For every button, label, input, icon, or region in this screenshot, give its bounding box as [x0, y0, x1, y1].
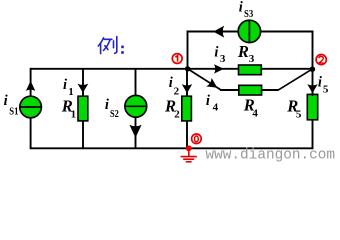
arrow: i2 current direction (down)	[182, 84, 192, 93]
svg-text:S1: S1	[9, 106, 18, 117]
current source iS3 (circle with bar, horizontal orientation)	[238, 20, 260, 42]
svg-text:S3: S3	[244, 9, 253, 20]
wire: left vertical branch of iS1 (x=30.6)	[30, 68, 32, 148]
label R3	[237, 42, 255, 65]
svg-text:S2: S2	[110, 109, 119, 120]
svg-text:5: 5	[323, 84, 329, 96]
wire: R2 branch vertical (x=187)	[186, 68, 188, 148]
wire: top bus node1-area from left corner to node 2 (y=68.8)	[31, 68, 313, 70]
current source iS1 (circle with bar)	[20, 96, 42, 118]
wire: bottom rail (y=148.3)	[30, 147, 314, 149]
svg-text:i: i	[239, 0, 243, 15]
ground (red earth symbol below node 0)	[181, 148, 197, 162]
svg-text:i: i	[105, 97, 109, 113]
node 2 label (red circled 2)	[316, 55, 326, 65]
label: blue colon after 例	[121, 46, 124, 54]
svg-text:4: 4	[252, 108, 258, 120]
label R1	[61, 96, 76, 120]
svg-text:i: i	[63, 77, 67, 93]
wire: vertical from node 1 up to top loop (x=187.5)	[187, 31, 189, 69]
label i2	[169, 75, 180, 97]
svg-text:i: i	[214, 45, 218, 61]
wire: horizontal out of R4 right end (y=90)	[261, 89, 279, 91]
node 0 label (red circled 0)	[192, 134, 202, 144]
svg-text:i: i	[169, 75, 173, 91]
label i3	[214, 45, 226, 66]
arrow: i1 current direction (down)	[78, 84, 89, 93]
wire: R1 branch vertical (x=83)	[82, 68, 84, 148]
arrow: iS2 current direction (down)	[129, 125, 141, 138]
label: blue heading 例: (example) drawn as strokes	[98, 37, 117, 54]
label i1	[63, 77, 74, 98]
label R2	[164, 96, 180, 120]
wire: diagonal from node 1 down to R4 level	[188, 69, 221, 90]
resistor R4	[239, 85, 262, 95]
wire: diagonal from R4 up to node 2	[278, 69, 312, 90]
label iS1	[4, 93, 19, 117]
svg-text:1: 1	[68, 86, 74, 98]
wire: iS2 branch vertical (x=135.5)	[135, 68, 137, 148]
svg-text:2: 2	[174, 109, 180, 121]
svg-text:i: i	[206, 93, 210, 109]
svg-text:i: i	[4, 93, 8, 109]
arrow: iS3 current direction (left)	[213, 26, 224, 38]
resistor R2	[182, 96, 192, 121]
wire: right vertical branch through node2 and R5 (x=312.5)	[312, 31, 314, 149]
node 0 junction dot (red, reference node)	[186, 145, 192, 151]
arrow: i5 current direction (down)	[307, 84, 317, 93]
node 1 junction dot	[185, 66, 190, 71]
svg-text:3: 3	[220, 53, 226, 65]
wire: top loop horizontal through iS3 (y=31.5)	[187, 31, 314, 33]
label iS2	[105, 97, 119, 120]
svg-text:5: 5	[296, 109, 302, 121]
svg-text:3: 3	[249, 53, 255, 65]
svg-text:i: i	[318, 74, 322, 90]
wire: horizontal into R4 left end (y=90)	[220, 89, 239, 91]
arrow: i4 current direction (down-right along diagonal)	[206, 78, 217, 88]
label i5	[318, 74, 329, 95]
label R5	[286, 96, 302, 120]
svg-text:1: 1	[71, 109, 77, 121]
label i4	[206, 93, 219, 114]
svg-text:2: 2	[174, 86, 180, 98]
resistor R3	[239, 65, 262, 75]
label iS3	[239, 0, 254, 20]
node 1 label (red circled 1)	[172, 54, 182, 64]
svg-text:R: R	[237, 42, 249, 61]
node 2 junction dot	[310, 66, 316, 72]
current source iS2 (circle with bar)	[125, 95, 147, 117]
label R4	[243, 96, 259, 120]
svg-text:4: 4	[213, 101, 219, 113]
resistor R5	[307, 94, 317, 119]
arrow: iS1 current direction (up)	[26, 81, 35, 91]
svg-text:www.diangon.com: www.diangon.com	[206, 147, 336, 163]
arrow: i3 current direction (right)	[214, 64, 224, 73]
resistor R1	[78, 96, 88, 121]
